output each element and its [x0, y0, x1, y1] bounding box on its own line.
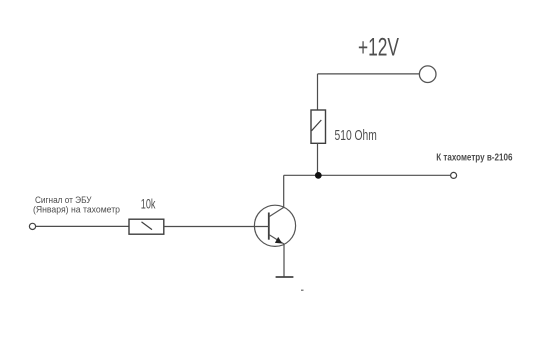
svg-text:(Января) на тахометр: (Января) на тахометр: [33, 205, 120, 215]
svg-text:510 Ohm: 510 Ohm: [335, 128, 377, 144]
svg-text:10k: 10k: [141, 197, 156, 212]
svg-text:+12V: +12V: [358, 34, 399, 62]
svg-text:К тахометру в-2106: К тахометру в-2106: [436, 152, 512, 164]
